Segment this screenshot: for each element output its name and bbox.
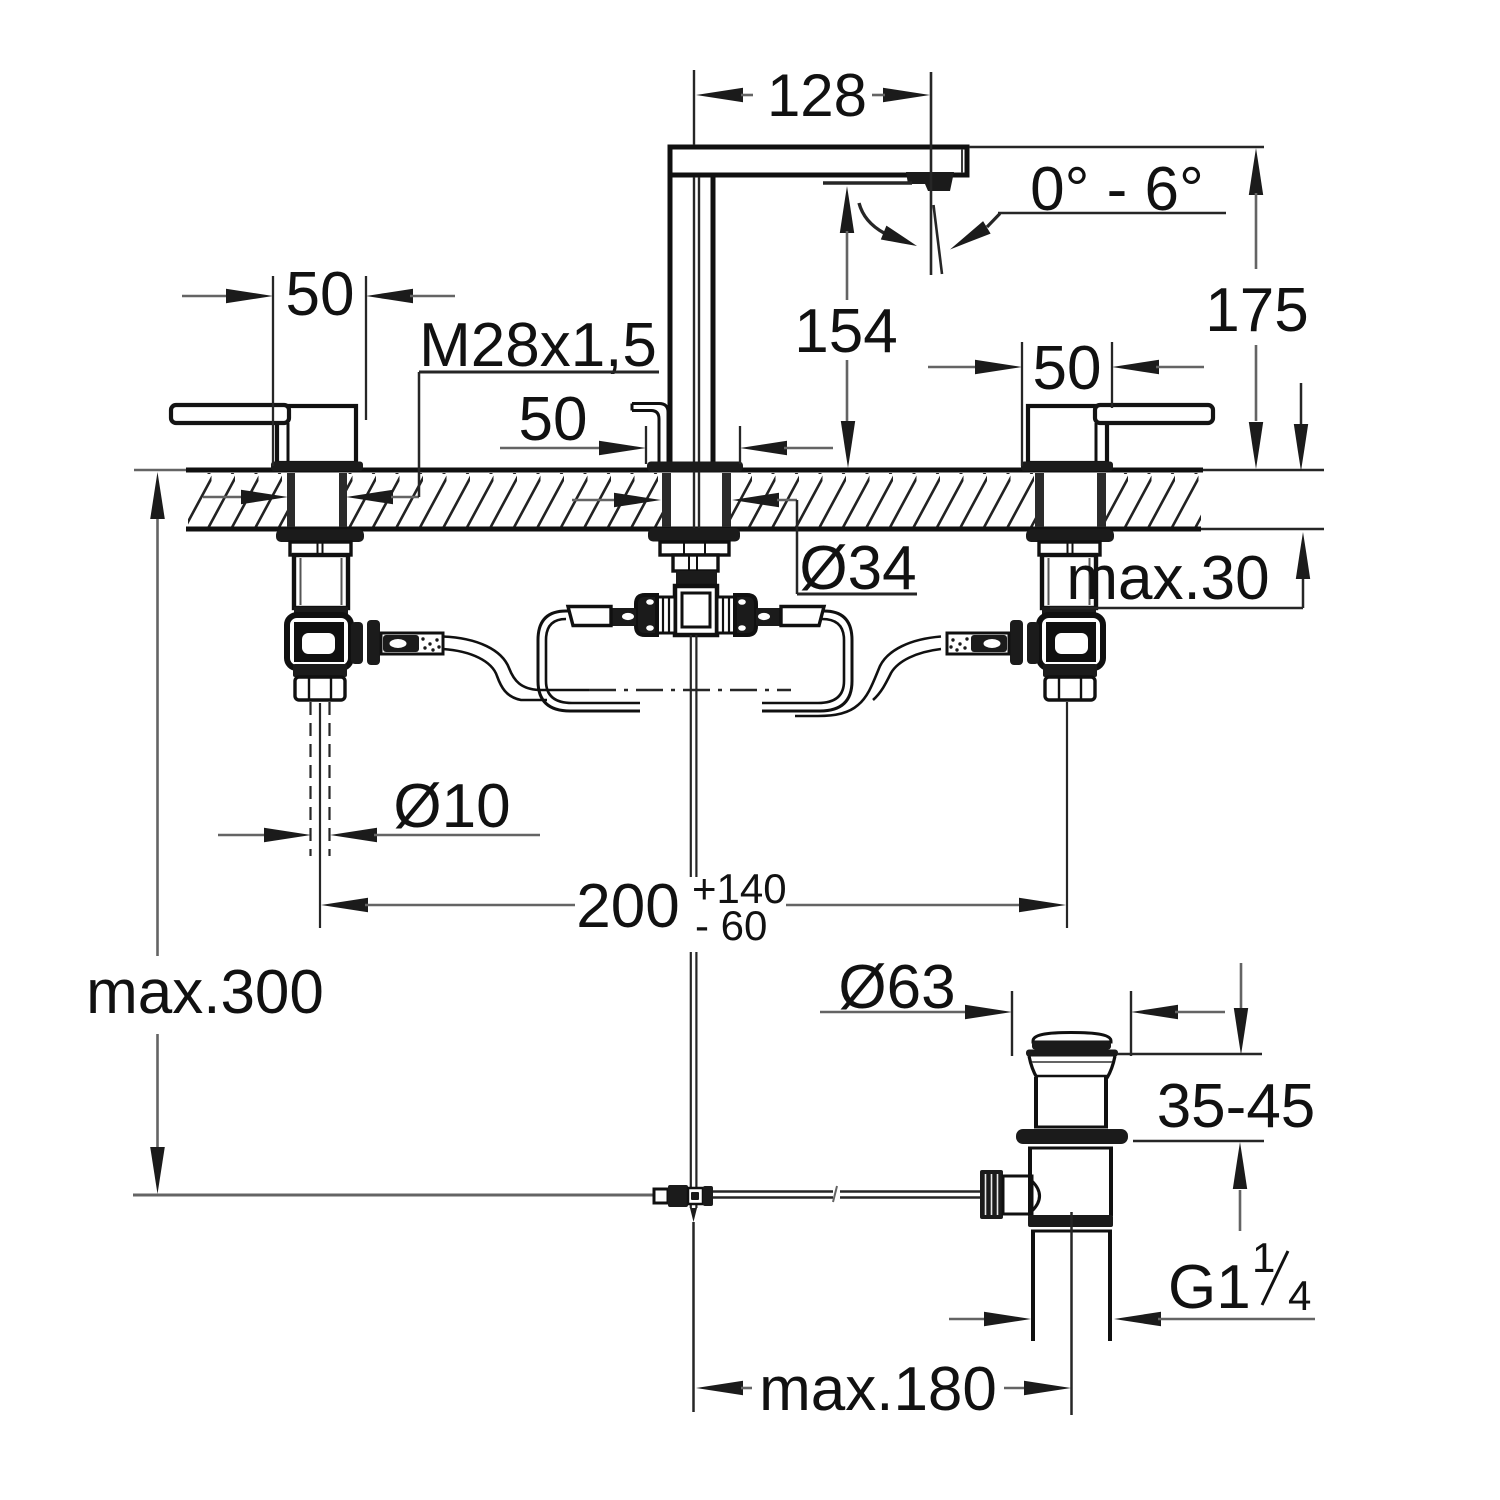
dimension 128 — [694, 62, 930, 145]
pop-up rod upper — [690, 635, 697, 1222]
svg-text:max.30: max.30 — [1066, 544, 1269, 613]
label M28x1,5 with leader — [419, 311, 659, 497]
svg-text:M28x1,5: M28x1,5 — [419, 311, 657, 380]
dimension 50 right handle — [928, 334, 1204, 466]
countertop hatched section — [188, 473, 1201, 527]
svg-text:G1: G1 — [1168, 1253, 1251, 1322]
right valve flexible hose — [795, 637, 941, 717]
drain neck cone — [1029, 1056, 1115, 1078]
water jet line — [931, 72, 942, 275]
svg-text:154: 154 — [794, 297, 897, 366]
right valve tail line — [1066, 702, 1068, 928]
pop-up rod lower — [692, 1222, 695, 1412]
drain upper flange — [1026, 1050, 1118, 1057]
right supply valve — [947, 530, 1114, 701]
dimension max.180 — [696, 1355, 1071, 1424]
svg-text:200: 200 — [576, 872, 679, 941]
dimension 200 +140 -60 — [321, 865, 1066, 949]
drain tail pipe — [1033, 1212, 1110, 1415]
spout outlet aerator — [906, 172, 954, 191]
svg-text:4: 4 — [1288, 1272, 1311, 1319]
center tee valve — [675, 586, 717, 635]
drain plug dome — [1032, 1033, 1111, 1050]
svg-text:35-45: 35-45 — [1157, 1072, 1316, 1141]
svg-text:Ø10: Ø10 — [393, 772, 510, 841]
horizontal pop-up rod — [713, 1186, 980, 1202]
hose center line dash-dot — [589, 689, 791, 691]
center hole arrows — [572, 493, 797, 507]
svg-text:50: 50 — [1033, 334, 1102, 403]
svg-text:50: 50 — [519, 385, 588, 454]
pop-up knob on riser — [632, 404, 668, 463]
spout top bar — [670, 147, 967, 175]
svg-text:max.300: max.300 — [86, 958, 324, 1027]
label 0deg-6deg — [859, 155, 1226, 250]
svg-text:128: 128 — [767, 62, 867, 129]
label diameter 34 with leader — [797, 500, 917, 603]
dimension 154 — [794, 183, 912, 468]
left valve flexible hose — [443, 637, 589, 701]
svg-text:Ø34: Ø34 — [799, 534, 916, 603]
drain valve body — [1028, 1148, 1113, 1231]
svg-text:1: 1 — [1252, 1234, 1275, 1281]
right handle — [1021, 405, 1213, 471]
dimension 50 left handle — [182, 260, 455, 466]
dimension 175 — [969, 147, 1309, 469]
dimension max.30 — [1050, 383, 1310, 613]
left supply valve — [276, 530, 443, 701]
countertop top surface line — [134, 469, 1324, 472]
rod junction fitting — [654, 1185, 713, 1207]
drain body cylinder — [1034, 1077, 1108, 1127]
left valve tail pipe dashed — [311, 702, 330, 928]
left handle — [171, 405, 363, 471]
svg-text:175: 175 — [1205, 276, 1308, 345]
svg-text:- 60: - 60 — [695, 902, 767, 949]
dimension diameter 63 — [820, 953, 1225, 1056]
dimension G1 1/4 — [949, 1234, 1315, 1326]
svg-text:50: 50 — [286, 260, 355, 329]
svg-text:max.180: max.180 — [759, 1355, 997, 1424]
spout shank seal ring — [676, 571, 717, 586]
tee right arm fitting — [717, 595, 824, 635]
dimension 50 center — [500, 385, 833, 464]
floor reference line — [133, 1194, 654, 1197]
tee left arm fitting — [568, 595, 675, 635]
drain seal ring — [1016, 1129, 1128, 1144]
center connection hose loop — [538, 611, 852, 711]
left hole thread arrows — [203, 490, 419, 504]
spout base escutcheon — [647, 462, 743, 472]
dimension diameter 10 — [218, 772, 540, 842]
rod adapter — [1003, 1176, 1040, 1214]
dimension 35-45 — [1117, 963, 1315, 1231]
countertop bottom line — [186, 527, 1324, 532]
dimension max.300 — [86, 472, 324, 1194]
spout riser — [670, 175, 713, 555]
deck hole walls — [287, 473, 1106, 527]
rod adjuster knob — [980, 1170, 1003, 1219]
spout shank locknut — [648, 528, 740, 571]
